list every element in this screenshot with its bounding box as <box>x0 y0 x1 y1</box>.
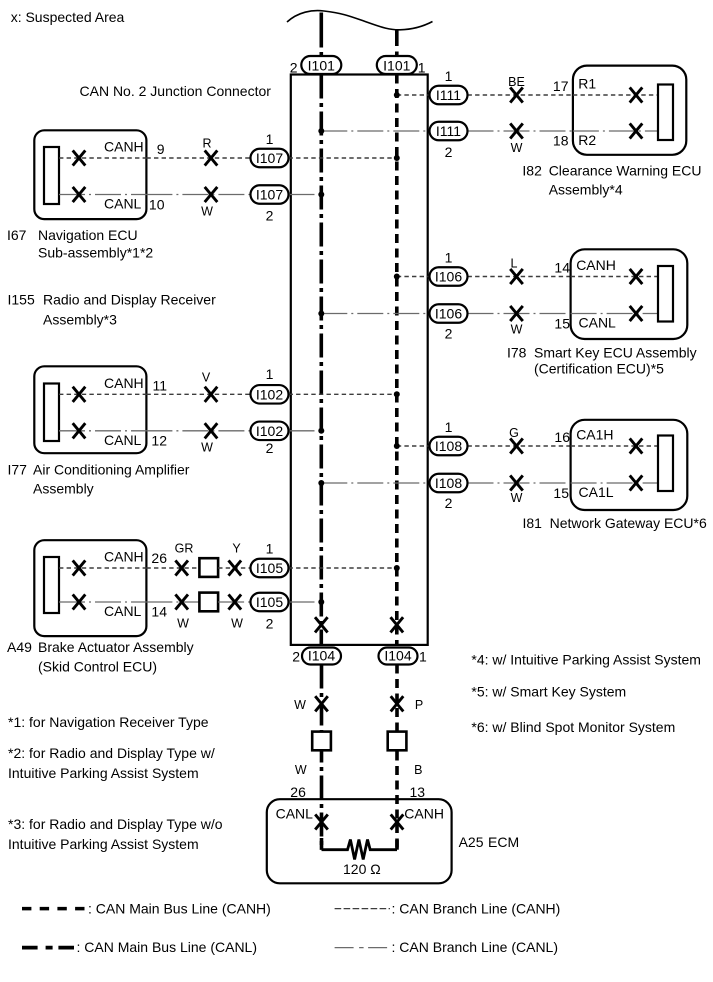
svg-text:2: 2 <box>266 440 274 456</box>
wire CANH branch A49 to intermediate connector <box>146 567 199 569</box>
svg-text:GR: GR <box>175 542 194 556</box>
svg-text:*5: w/ Smart Key System: *5: w/ Smart Key System <box>471 684 626 700</box>
wire CA1H inside I81 <box>571 445 658 447</box>
svg-text:1: 1 <box>445 68 453 84</box>
junction dot on CANH bus <box>394 565 400 571</box>
label I155 Radio and Display Receiver Assembly <box>8 292 217 328</box>
svg-text:*4: w/ Intuitive Parking Assis: *4: w/ Intuitive Parking Assist System <box>471 652 701 668</box>
svg-text:A49: A49 <box>7 639 32 655</box>
wire CANH branch I105 to CANH bus <box>289 567 397 569</box>
svg-text:2: 2 <box>266 208 274 224</box>
suspected area X marks A49 row <box>73 560 241 609</box>
suspected area X marks I78 row <box>510 269 642 321</box>
junction dot on CANL bus <box>318 480 324 486</box>
wire CANH branch I102 to CANH bus <box>289 393 397 395</box>
junction dot on CANH bus <box>394 274 400 280</box>
svg-text:I101: I101 <box>383 58 410 74</box>
svg-text:14: 14 <box>151 604 167 620</box>
svg-text:CANL: CANL <box>104 432 142 448</box>
wire CANL branch bus to I108 <box>321 482 429 484</box>
connector I108 pin 1 <box>430 419 468 455</box>
wire CANH branch I107 to CANH bus <box>289 157 397 159</box>
svg-text:I108: I108 <box>435 475 462 491</box>
svg-text:G: G <box>509 426 519 440</box>
suspected area X marks I81 row <box>510 438 642 490</box>
label I82 Clearance Warning ECU Assembly <box>522 163 701 198</box>
svg-text:CA1H: CA1H <box>576 427 613 443</box>
svg-text:Radio and Display Receiver: Radio and Display Receiver <box>43 292 216 308</box>
legend sample CAN Branch Line CANL <box>335 939 558 955</box>
junction dot on CANL bus <box>318 311 324 317</box>
svg-text:I105: I105 <box>256 560 283 576</box>
connector I104 pin 1 <box>379 648 428 665</box>
junction dot on CANL bus <box>318 599 324 605</box>
wire CANH branch I67 to I107 <box>146 157 250 159</box>
svg-text:Intuitive Parking Assist Syste: Intuitive Parking Assist System <box>8 765 199 781</box>
intermediate connector square CANL <box>312 732 331 751</box>
wire CANH branch bus to I111 <box>397 94 430 96</box>
svg-text:15: 15 <box>554 316 570 332</box>
svg-text:W: W <box>201 204 213 218</box>
wire CANH square to I105 <box>218 567 250 569</box>
ECU A49 Brake Actuator Assembly box <box>34 540 146 636</box>
svg-text:I107: I107 <box>256 150 283 166</box>
wire stubs into resistor <box>320 838 324 850</box>
svg-text:2: 2 <box>445 144 453 160</box>
wire CANL branch A49 to intermediate connector <box>146 601 199 603</box>
ECU I67 Navigation ECU box <box>34 130 146 219</box>
note *3 <box>8 816 223 852</box>
wire CANL square to I105 <box>218 601 250 603</box>
svg-text:I81: I81 <box>523 515 543 531</box>
intermediate connector square CANH <box>388 732 407 751</box>
svg-text:W: W <box>294 698 306 712</box>
svg-text:Navigation ECU: Navigation ECU <box>38 227 138 243</box>
wire CANH branch bus to I106 <box>397 276 430 278</box>
connector I104 pin 2 <box>292 648 341 665</box>
junction dot on CANH bus <box>394 155 400 161</box>
svg-text:B: B <box>414 763 422 777</box>
svg-text:1: 1 <box>445 419 453 435</box>
svg-text:26: 26 <box>151 550 167 566</box>
junction dot on CANH bus <box>394 92 400 98</box>
wire CANL inside I78 <box>571 313 658 315</box>
svg-text:ECM: ECM <box>488 834 519 850</box>
svg-text:I101: I101 <box>308 58 335 74</box>
svg-text:: CAN Branch Line (CANL): : CAN Branch Line (CANL) <box>392 939 559 955</box>
junction connector box J/C <box>291 75 428 645</box>
svg-text:CANH: CANH <box>104 375 144 391</box>
svg-text:2: 2 <box>292 649 300 665</box>
wire CA1L inside I81 <box>571 482 658 484</box>
wire CANL branch I105 to CANL bus <box>289 601 322 603</box>
connector I106 pin 2 <box>430 304 468 341</box>
svg-text:V: V <box>202 370 211 384</box>
connector pin strip of I77 <box>44 384 59 442</box>
suspected area X marks at junction box bottom <box>315 617 403 632</box>
wire CANL inside I82 <box>573 130 658 132</box>
svg-text:11: 11 <box>152 377 167 393</box>
label I81 Network Gateway ECU <box>523 515 707 531</box>
connector I107 pin 1 <box>251 131 289 167</box>
svg-text:*2: for Radio and Display Type: *2: for Radio and Display Type w/ <box>8 745 215 761</box>
connector I105 pin 2 <box>251 593 289 632</box>
svg-text:W: W <box>511 323 523 337</box>
wire CANL branch inside A49 <box>59 601 146 603</box>
junction dot on CANL bus <box>318 428 324 434</box>
svg-text:R2: R2 <box>578 132 596 148</box>
svg-text:2: 2 <box>445 326 453 342</box>
label I67 Navigation ECU Sub-assembly <box>7 227 153 261</box>
svg-text:Assembly: Assembly <box>33 481 94 497</box>
ECU A25 ECM box <box>267 799 452 883</box>
svg-text:A25: A25 <box>459 834 484 850</box>
junction dot on CANH bus <box>394 391 400 397</box>
wire CANH branch inside A49 <box>59 567 146 569</box>
label I77 Air Conditioning Amplifier Assembly <box>8 461 190 496</box>
svg-text:1: 1 <box>266 366 274 382</box>
suspected area X marks below I104 <box>315 696 403 711</box>
svg-text:R: R <box>202 137 211 151</box>
wire CANL branch I102 to CANL bus <box>289 430 322 432</box>
svg-text:W: W <box>511 141 523 155</box>
svg-text:I106: I106 <box>435 306 462 322</box>
wire CANL I111 to I82 <box>468 130 573 132</box>
svg-text:CAN No. 2 Junction Connector: CAN No. 2 Junction Connector <box>80 83 272 99</box>
label A49 Brake Actuator Assembly <box>7 639 194 674</box>
svg-text:W: W <box>231 617 243 631</box>
svg-text:13: 13 <box>410 784 426 800</box>
svg-text:(Skid Control ECU): (Skid Control ECU) <box>38 658 157 674</box>
svg-text:(Certification ECU)*5: (Certification ECU)*5 <box>534 360 664 376</box>
svg-text:W: W <box>511 491 523 505</box>
svg-text:2: 2 <box>266 616 274 632</box>
svg-text:Brake Actuator Assembly: Brake Actuator Assembly <box>38 639 194 655</box>
svg-text:*3: for Radio and Display Type: *3: for Radio and Display Type w/o <box>8 816 223 832</box>
svg-text:10: 10 <box>149 197 165 213</box>
svg-text:CANL: CANL <box>104 603 142 619</box>
svg-text:1: 1 <box>266 541 274 557</box>
ECU I77 Air Conditioning Amplifier box <box>34 366 146 453</box>
svg-text:P: P <box>415 698 423 712</box>
svg-text:Intuitive Parking Assist Syste: Intuitive Parking Assist System <box>8 836 199 852</box>
svg-text:18: 18 <box>553 133 569 149</box>
svg-text:I111: I111 <box>436 87 461 103</box>
svg-text:W: W <box>201 441 213 455</box>
connector I101 pin 1 <box>377 56 426 76</box>
wire CANH main bus junction box to ECM <box>395 665 399 850</box>
wire CANL branch inside I77 <box>59 430 146 432</box>
resistor 120 ohm terminating <box>322 840 398 860</box>
svg-text:I104: I104 <box>308 648 335 664</box>
wire CANL branch I67 to I107 <box>146 194 250 196</box>
intermediate connector square CANH <box>199 558 218 577</box>
connector pin strip of A49 <box>44 557 59 613</box>
connector pin strip of I78 <box>658 266 673 322</box>
svg-text:Assembly*4: Assembly*4 <box>549 181 623 197</box>
svg-text:Y: Y <box>232 542 241 556</box>
connector I111 pin 1 <box>430 68 468 104</box>
svg-text:Air Conditioning Amplifier: Air Conditioning Amplifier <box>33 461 190 477</box>
wire CANH branch bus to I108 <box>397 445 430 447</box>
svg-text:: CAN Main Bus Line (CANH): : CAN Main Bus Line (CANH) <box>88 900 271 916</box>
svg-text:I77: I77 <box>8 461 28 477</box>
svg-text:CANH: CANH <box>104 139 144 155</box>
connector I107 pin 2 <box>251 185 289 223</box>
ECU I78 Smart Key ECU box <box>571 249 688 339</box>
wire CANH branch inside I77 <box>59 393 146 395</box>
svg-text:I106: I106 <box>435 269 462 285</box>
svg-text:1: 1 <box>418 60 426 76</box>
svg-text:CANH: CANH <box>104 549 144 565</box>
svg-text:I105: I105 <box>256 594 283 610</box>
label A25 ECM <box>459 834 520 850</box>
svg-text:*1: for Navigation Receiver Ty: *1: for Navigation Receiver Type <box>8 714 209 730</box>
wire CANL I106 to I78 <box>468 313 571 315</box>
svg-text:1: 1 <box>266 131 274 147</box>
wire: CANL main bus stub above junction box <box>319 13 323 75</box>
svg-text:CANH: CANH <box>404 806 444 822</box>
svg-text:I82: I82 <box>522 163 542 179</box>
suspected area X marks in ECM <box>315 814 403 829</box>
svg-text:120 Ω: 120 Ω <box>343 861 381 877</box>
wire CANL main bus junction box to ECM <box>320 665 324 850</box>
svg-text:CANL: CANL <box>579 315 617 331</box>
svg-text:1: 1 <box>445 250 453 266</box>
wire CANL branch I77 to I102 <box>146 430 250 432</box>
svg-text:12: 12 <box>151 433 167 449</box>
svg-text:R1: R1 <box>578 76 596 92</box>
svg-text:I102: I102 <box>256 423 283 439</box>
svg-text:CANL: CANL <box>104 196 142 212</box>
svg-text:I155: I155 <box>8 292 35 308</box>
svg-text:*6: w/ Blind Spot Monitor Syst: *6: w/ Blind Spot Monitor System <box>471 719 675 735</box>
svg-text:15: 15 <box>553 485 569 501</box>
suspected area X marks I77 row <box>73 387 218 439</box>
wire CANH branch inside I67 <box>59 157 146 159</box>
wire: CANH main bus inside junction box <box>395 75 399 645</box>
svg-text:Network Gateway ECU*6: Network Gateway ECU*6 <box>550 515 707 531</box>
svg-text:x: Suspected Area: x: Suspected Area <box>11 9 125 25</box>
ECU I82 Clearance Warning ECU box <box>573 66 686 155</box>
connector pin strip of I82 <box>658 85 673 141</box>
svg-text:I78: I78 <box>507 345 527 361</box>
connector I102 pin 1 <box>251 366 289 404</box>
svg-text:I67: I67 <box>7 227 27 243</box>
junction dot on CANL bus <box>318 128 324 134</box>
svg-text:17: 17 <box>553 78 569 94</box>
svg-text:2: 2 <box>445 495 453 511</box>
connector pin strip of I81 <box>658 436 673 492</box>
svg-text:: CAN Branch Line (CANH): : CAN Branch Line (CANH) <box>392 900 561 916</box>
svg-text:26: 26 <box>290 784 306 800</box>
junction dot on CANL bus <box>318 192 324 198</box>
wire CANL branch I107 to CANL bus <box>289 194 322 196</box>
svg-text:2: 2 <box>290 60 298 76</box>
wire CANL branch inside I67 <box>59 194 146 196</box>
svg-text:CA1L: CA1L <box>579 484 614 500</box>
wire CANH I108 to I81 <box>468 445 571 447</box>
suspected area X marks I82 row <box>510 87 642 138</box>
note *2 <box>8 745 215 781</box>
svg-text:I108: I108 <box>435 438 462 454</box>
svg-text:: CAN Main Bus Line (CANL): : CAN Main Bus Line (CANL) <box>77 939 258 955</box>
wire: harness break wave at top <box>287 11 433 30</box>
svg-text:W: W <box>177 617 189 631</box>
wire CANH I106 to I78 <box>468 276 571 278</box>
connector I101 pin 2 <box>290 56 342 76</box>
legend sample CAN Main Bus Line CANH <box>22 900 271 916</box>
intermediate connector square CANL <box>199 593 218 612</box>
svg-text:1: 1 <box>419 649 427 665</box>
legend sample CAN Main Bus Line CANL <box>22 939 257 955</box>
svg-text:Assembly*3: Assembly*3 <box>43 311 117 327</box>
ECU I81 Network Gateway ECU box <box>571 420 688 510</box>
svg-text:14: 14 <box>554 260 570 276</box>
svg-text:BE: BE <box>508 75 525 89</box>
svg-text:Clearance Warning ECU: Clearance Warning ECU <box>549 163 702 179</box>
junction dot on CANH bus <box>394 443 400 449</box>
connector I102 pin 2 <box>251 422 289 457</box>
connector I111 pin 2 <box>430 122 468 160</box>
wire CANL I108 to I81 <box>468 482 571 484</box>
wire CANH I111 to I82 <box>468 94 573 96</box>
connector I105 pin 1 <box>251 541 289 578</box>
wire: CANL main bus inside junction box <box>319 75 323 645</box>
wire CANL branch bus to I106 <box>321 313 429 315</box>
wire: CANH main bus stub above junction box <box>395 31 399 75</box>
connector I106 pin 1 <box>430 250 468 286</box>
svg-text:Sub-assembly*1*2: Sub-assembly*1*2 <box>38 245 153 261</box>
connector I108 pin 2 <box>430 474 468 511</box>
svg-text:I111: I111 <box>436 123 461 139</box>
connector pin strip of I67 <box>44 147 59 204</box>
wire CANH inside I82 <box>573 94 658 96</box>
svg-text:CANH: CANH <box>576 257 616 273</box>
svg-text:I107: I107 <box>256 187 283 203</box>
svg-text:16: 16 <box>554 429 570 445</box>
legend sample CAN Branch Line CANH <box>335 900 561 916</box>
svg-text:W: W <box>295 763 307 777</box>
label I78 Smart Key ECU Assembly <box>507 345 697 377</box>
svg-text:I102: I102 <box>256 386 283 402</box>
svg-text:9: 9 <box>157 141 165 157</box>
suspected area X marks I67 row <box>73 150 218 202</box>
wire CANL branch bus to I111 <box>321 130 429 132</box>
wire CANH branch I77 to I102 <box>146 393 250 395</box>
wire CANH inside I78 <box>571 276 658 278</box>
svg-text:CANL: CANL <box>276 806 314 822</box>
svg-text:I104: I104 <box>384 648 411 664</box>
svg-text:Smart Key ECU Assembly: Smart Key ECU Assembly <box>534 345 697 361</box>
